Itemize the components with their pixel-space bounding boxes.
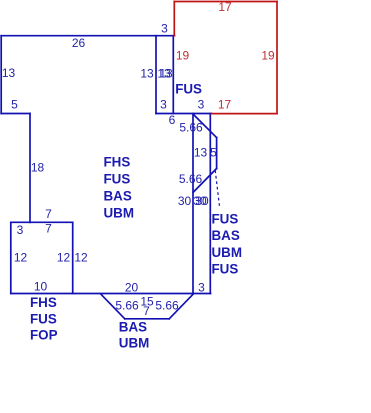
svg-text:30: 30 — [178, 194, 192, 208]
svg-text:FUS: FUS — [30, 311, 57, 326]
svg-text:19: 19 — [176, 49, 190, 63]
wall horizontal under strip — [156, 113, 212, 115]
wall bas-ubm diagonal left 5.66 — [101, 294, 125, 319]
wall bay diagonal upper 5.66 — [193, 114, 216, 137]
svg-text:10: 10 — [34, 280, 48, 294]
svg-text:FUS: FUS — [175, 82, 202, 97]
wall porch left 12 — [10, 222, 12, 293]
svg-text:20: 20 — [125, 281, 139, 295]
wall left 18 — [29, 114, 31, 223]
wall bay diagonal lower 5.66 — [193, 169, 216, 193]
wall strip2 right 30 — [209, 114, 211, 294]
svg-text:FUS: FUS — [212, 262, 239, 277]
svg-text:5: 5 — [11, 98, 18, 112]
wall bottom edge — [11, 293, 211, 295]
wall bas-ubm bottom 7 — [125, 318, 169, 320]
svg-text:UBM: UBM — [119, 336, 150, 351]
wall main right 30 — [192, 114, 194, 294]
svg-text:18: 18 — [31, 161, 45, 175]
svg-text:13: 13 — [194, 146, 208, 160]
svg-text:3: 3 — [17, 223, 24, 237]
wall strip right 13 — [172, 36, 174, 114]
wall addition right 19 — [276, 2, 278, 114]
wall strip left 13 — [155, 36, 157, 114]
wall left edge 13 — [0, 36, 2, 114]
svg-text:3: 3 — [160, 98, 167, 112]
svg-text:30: 30 — [195, 194, 209, 208]
svg-text:3: 3 — [198, 98, 205, 112]
svg-text:UBM: UBM — [104, 205, 135, 220]
wall right of porch 12 — [72, 222, 74, 293]
svg-text:5.66: 5.66 — [115, 299, 139, 313]
svg-text:13: 13 — [140, 67, 154, 81]
svg-text:7: 7 — [45, 207, 52, 221]
svg-text:5: 5 — [210, 146, 217, 160]
svg-text:12: 12 — [57, 251, 71, 265]
svg-text:6: 6 — [169, 113, 176, 127]
svg-text:7: 7 — [143, 304, 150, 318]
svg-text:FUS: FUS — [212, 212, 239, 227]
svg-text:BAS: BAS — [104, 188, 132, 203]
svg-text:5.66: 5.66 — [155, 299, 179, 313]
svg-text:FOP: FOP — [30, 328, 58, 343]
svg-text:BAS: BAS — [119, 320, 147, 335]
wall bay right 5 — [216, 138, 218, 169]
wall shared 7 — [30, 221, 73, 223]
svg-text:12: 12 — [74, 251, 88, 265]
svg-text:12: 12 — [14, 251, 28, 265]
svg-text:BAS: BAS — [212, 228, 240, 243]
svg-text:13: 13 — [159, 67, 173, 81]
leader dotted line — [215, 171, 220, 209]
svg-text:7: 7 — [45, 222, 52, 236]
wall porch top 3 — [11, 221, 30, 223]
svg-text:13: 13 — [2, 66, 16, 80]
svg-text:17: 17 — [218, 0, 232, 14]
svg-text:5.66: 5.66 — [179, 121, 203, 135]
wall addition left upper — [173, 2, 175, 36]
wall top edge (26 + strip top) — [1, 35, 174, 37]
wall addition bottom 17 — [212, 113, 278, 115]
wall addition top 17 — [174, 1, 277, 3]
wall bas-ubm diagonal right 5.66 — [169, 294, 193, 319]
wall step 5 — [1, 113, 30, 115]
svg-text:5.66: 5.66 — [179, 172, 203, 186]
svg-text:UBM: UBM — [212, 245, 243, 260]
svg-text:3: 3 — [198, 281, 205, 295]
svg-text:FUS: FUS — [104, 171, 131, 186]
svg-text:19: 19 — [261, 49, 275, 63]
svg-text:FHS: FHS — [104, 154, 131, 169]
svg-text:26: 26 — [72, 36, 86, 50]
svg-text:17: 17 — [218, 98, 232, 112]
svg-text:3: 3 — [161, 22, 168, 36]
svg-text:FHS: FHS — [30, 295, 57, 310]
